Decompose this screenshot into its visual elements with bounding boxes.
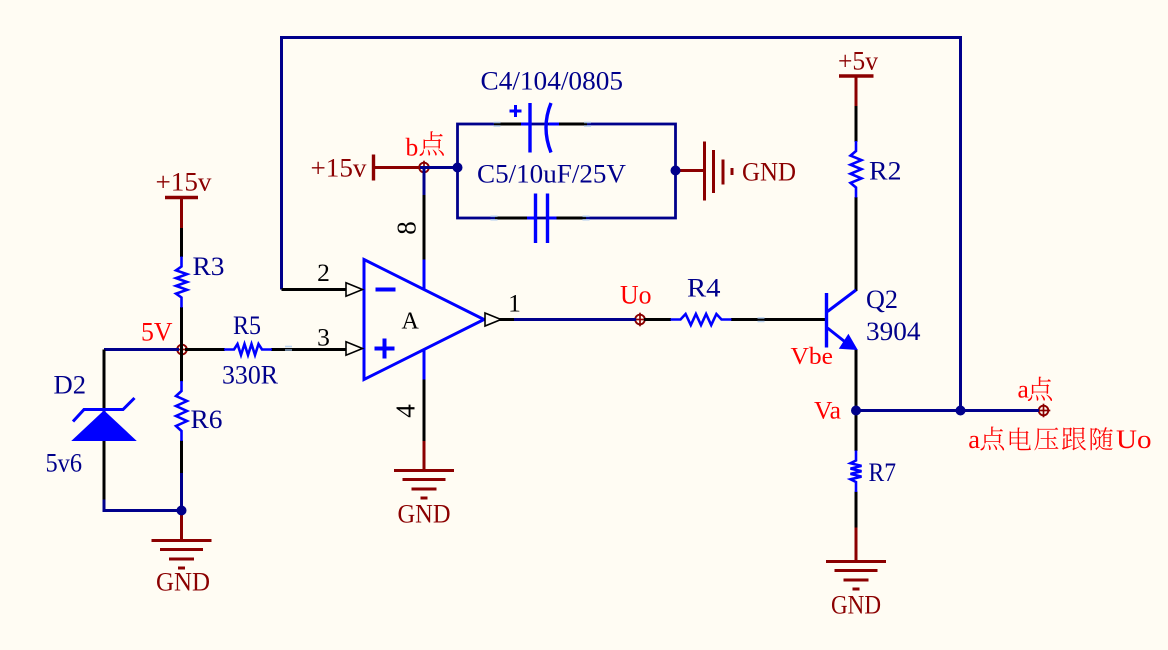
wire 5V node left bbox=[104, 348, 179, 351]
wire Q2 emitter down bbox=[855, 349, 858, 411]
wire feedback top bbox=[282, 38, 961, 411]
svg-text:a: a bbox=[968, 424, 980, 454]
ground right bars bbox=[703, 142, 706, 201]
power +15v left bar bbox=[165, 196, 198, 199]
resistor R3 bbox=[176, 257, 187, 308]
svg-text:Va: Va bbox=[814, 396, 841, 425]
svg-text:R4: R4 bbox=[687, 273, 721, 303]
op-amp pin1 arrow bbox=[485, 313, 501, 326]
transistor Q2 emitter arrow bbox=[839, 334, 858, 350]
zener diode D2 body bbox=[73, 411, 136, 441]
ground right stem bbox=[676, 169, 705, 172]
svg-text:+15v: +15v bbox=[311, 153, 368, 183]
zener diode D2 cathode bar bbox=[73, 398, 135, 422]
wire b node down bbox=[423, 168, 426, 197]
wire Va to R7 bbox=[855, 411, 858, 452]
op-amp pin3 arrow bbox=[346, 342, 363, 355]
op-amp pin2 arrow bbox=[346, 283, 363, 296]
wire R4 to Q2 base bbox=[731, 318, 827, 321]
pin capacitor C4 left bbox=[494, 123, 522, 126]
wire op-amp pin1 out bbox=[484, 318, 516, 321]
svg-text:D2: D2 bbox=[54, 370, 87, 400]
svg-text:GND: GND bbox=[831, 590, 881, 620]
wire R3 to 5V node to R6 bbox=[180, 307, 183, 382]
pin capacitor C5 left bbox=[495, 217, 528, 220]
svg-text:4: 4 bbox=[391, 404, 421, 418]
svg-text:A: A bbox=[402, 309, 420, 335]
svg-text:C5/10uF/25V: C5/10uF/25V bbox=[477, 159, 626, 189]
ground op-amp stem bbox=[423, 441, 426, 471]
marker b node bbox=[417, 167, 431, 169]
wire cap network box bbox=[458, 124, 676, 218]
capacitor C5 plate left bbox=[534, 194, 537, 244]
wire +5v to R2 bbox=[855, 106, 858, 142]
svg-text:a: a bbox=[1018, 375, 1029, 404]
junction b node bbox=[453, 163, 463, 173]
marker 5V node bbox=[175, 349, 189, 351]
wire Va node bbox=[856, 409, 1039, 412]
svg-text:Q2: Q2 bbox=[866, 284, 898, 314]
wire R7 to GND bbox=[855, 492, 858, 529]
wire Uo to R4 bbox=[644, 318, 671, 321]
capacitor C4 plate right curved bbox=[546, 103, 551, 153]
wire to R3 bbox=[180, 228, 183, 257]
junction zener gnd bbox=[177, 506, 187, 516]
power +5v bar bbox=[839, 74, 874, 77]
wire op-amp pin2 bbox=[282, 288, 348, 291]
pin capacitor C5 right bbox=[549, 217, 558, 220]
svg-text:3: 3 bbox=[317, 323, 330, 352]
op-amp pin8 stub bbox=[423, 260, 426, 291]
wire zener bottom bbox=[104, 500, 182, 511]
pin capacitor C4 right bbox=[549, 123, 560, 126]
wire op-amp pin8 bbox=[423, 195, 426, 260]
svg-text:8: 8 bbox=[392, 221, 422, 235]
wire 5V node to R5 bbox=[185, 348, 225, 351]
resistor R2 bbox=[851, 141, 862, 198]
op-amp U1 triangle bbox=[364, 260, 484, 380]
junction cap network right bbox=[671, 166, 681, 176]
capacitor C4 plate left bbox=[528, 103, 531, 153]
wire R6 to gnd junction bbox=[180, 473, 183, 511]
junction a node bbox=[956, 406, 966, 416]
svg-text:R6: R6 bbox=[191, 404, 223, 434]
svg-text:5v6: 5v6 bbox=[46, 448, 83, 478]
svg-text:GND: GND bbox=[398, 499, 451, 529]
transistor Q2 collector bbox=[828, 290, 857, 312]
svg-text:R5: R5 bbox=[233, 310, 261, 340]
wire +5v stem bbox=[855, 76, 858, 108]
resistor R7 bbox=[851, 451, 862, 493]
wire zener branch vertical bbox=[103, 350, 106, 502]
svg-text:R3: R3 bbox=[193, 251, 225, 281]
ground op-amp bbox=[394, 469, 454, 472]
wire R2 to Q2 collector bbox=[855, 197, 858, 291]
resistor R5 bbox=[224, 344, 272, 355]
svg-text:+15v: +15v bbox=[156, 167, 213, 197]
svg-text:5V: 5V bbox=[141, 317, 173, 347]
svg-text:3904: 3904 bbox=[866, 316, 921, 346]
svg-text:+5v: +5v bbox=[838, 46, 879, 76]
svg-text:330R: 330R bbox=[222, 360, 278, 390]
transistor Q2 base bar bbox=[825, 293, 828, 348]
wire op-amp pin4 bbox=[423, 380, 426, 443]
ground left stem bbox=[180, 511, 183, 542]
svg-text:Uo: Uo bbox=[1116, 424, 1152, 454]
svg-text:R7: R7 bbox=[869, 457, 897, 487]
capacitor C4 plus sign bbox=[510, 110, 522, 113]
power +15v b stem bbox=[374, 166, 421, 169]
svg-text:C4/104/0805: C4/104/0805 bbox=[481, 66, 624, 96]
wire b node to cap network bbox=[420, 166, 458, 169]
pin end markers bbox=[494, 122, 501, 124]
capacitor C5 plate right bbox=[546, 194, 549, 244]
marker Uo node bbox=[633, 319, 647, 321]
svg-text:GND: GND bbox=[156, 567, 210, 597]
ground R7 bbox=[826, 560, 886, 563]
wire +15v stem left bbox=[180, 198, 183, 230]
power +15v b bar bbox=[372, 155, 375, 181]
ground left bbox=[152, 539, 212, 542]
op-amp pin4 stub bbox=[423, 350, 426, 380]
svg-text:1: 1 bbox=[508, 289, 521, 318]
ground R7 stem bbox=[855, 528, 858, 563]
wire R5 to pin3 bbox=[271, 348, 347, 351]
svg-text:GND: GND bbox=[742, 157, 796, 187]
svg-text:R2: R2 bbox=[869, 156, 902, 186]
transistor Q2 emitter bbox=[828, 328, 850, 345]
junction Va bbox=[851, 406, 861, 416]
svg-text:b: b bbox=[406, 133, 419, 162]
svg-text:Uo: Uo bbox=[620, 280, 652, 310]
wire R6 down bbox=[180, 441, 183, 476]
marker a node bbox=[1037, 410, 1051, 412]
op-amp plus bbox=[375, 347, 395, 351]
wire output to Uo bbox=[514, 318, 636, 321]
resistor R6 bbox=[176, 381, 187, 441]
svg-text:2: 2 bbox=[317, 258, 330, 287]
op-amp minus bbox=[376, 288, 396, 292]
svg-text:Vbe: Vbe bbox=[791, 343, 834, 370]
resistor R4 bbox=[671, 314, 732, 325]
